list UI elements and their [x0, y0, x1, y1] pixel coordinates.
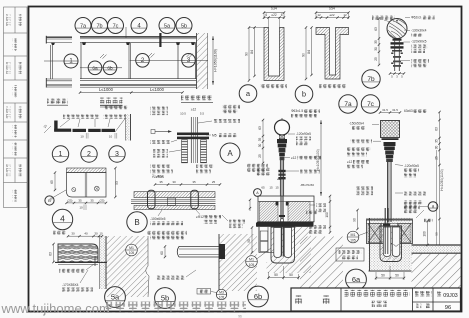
label wall junction [181, 96, 213, 101]
wall hatch strip at elevation right [197, 33, 208, 89]
svg-text:63: 63 [434, 127, 438, 131]
svg-text:H=1050(1100): H=1050(1100) [214, 49, 218, 72]
svg-text:30: 30 [94, 232, 98, 236]
svg-text:(25): (25) [68, 198, 73, 202]
detail 7c right dim line [439, 112, 441, 245]
detail bubble 7a [339, 95, 357, 113]
detail A left labels [150, 140, 170, 144]
detail B bottom plate hatched [134, 205, 215, 209]
detail bubble 6b [248, 286, 269, 307]
svg-text:6a: 6a [92, 65, 98, 71]
svg-text:31.5: 31.5 [392, 108, 398, 112]
svg-text:www.tujihome.com: www.tujihome.com [1, 301, 110, 316]
svg-text:≥22: ≥22 [330, 13, 335, 17]
svg-text:≥34: ≥34 [271, 7, 277, 11]
elevation bottom dimension line L<=1000 x2 [80, 92, 183, 94]
detail 3 wall joint bar [102, 129, 116, 132]
detail 6a finish note box [336, 248, 364, 261]
svg-text:65: 65 [261, 186, 265, 190]
detail bubble 6a [346, 269, 367, 290]
detail 7a collar fitting [279, 135, 284, 138]
detail 5a wall hatch [106, 236, 148, 297]
section a caption U-steel [260, 84, 287, 89]
title text line 1 [345, 290, 411, 297]
detail A bubble [220, 143, 240, 163]
svg-text:-100x60x5: -100x60x5 [150, 217, 166, 221]
svg-text:10: 10 [109, 134, 113, 138]
svg-text:15: 15 [269, 186, 273, 190]
detail B glass lines [131, 199, 216, 201]
svg-text:10.5: 10.5 [180, 112, 186, 116]
detail B right extension dim [249, 200, 251, 211]
svg-text:90: 90 [352, 218, 356, 222]
detail 5b header labels [147, 231, 187, 235]
svg-text:100: 100 [325, 212, 329, 218]
detail 7a rubber pads lower [278, 170, 285, 172]
section a height dims 90 84 [248, 28, 250, 81]
detail 1 corner bar [54, 121, 57, 132]
elevation callout bubble 4 [131, 18, 147, 34]
atlas number label [415, 291, 432, 296]
detail 5b sleeve label [156, 276, 185, 280]
svg-text:M3: M3 [219, 290, 224, 294]
svg-text:≥12: ≥12 [347, 160, 353, 164]
svg-text:5b: 5b [181, 23, 187, 29]
detail 6b M1 tag [246, 256, 258, 268]
svg-text:30: 30 [434, 146, 438, 150]
svg-text:4: 4 [60, 214, 65, 224]
detail 7a anchor bolt [280, 196, 282, 219]
detail 5b wall hatch [219, 234, 257, 291]
detail 6b slab top dark band [256, 223, 312, 227]
svg-text:(25): (25) [100, 198, 105, 202]
detail bubble 5b [155, 288, 176, 309]
svg-text:12: 12 [317, 13, 321, 17]
svg-text:35: 35 [90, 198, 94, 202]
detail bubble 5a [105, 287, 126, 308]
detail 7c wood handrail square [381, 121, 400, 138]
svg-text:65: 65 [50, 180, 54, 184]
svg-text:5b: 5b [161, 293, 169, 302]
detail 5b anchor plate in wall [219, 244, 225, 259]
title text line 2 (three) [372, 301, 388, 307]
svg-text:50: 50 [395, 274, 399, 278]
svg-text:≥22: ≥22 [271, 13, 277, 17]
svg-text:25: 25 [258, 154, 262, 158]
svg-text:7a: 7a [80, 23, 87, 29]
svg-text:63: 63 [258, 126, 262, 130]
section bubble b [295, 85, 313, 103]
svg-text:30: 30 [71, 232, 75, 236]
svg-text:6: 6 [265, 13, 267, 17]
svg-text:7c: 7c [113, 23, 119, 29]
svg-text:63: 63 [48, 252, 52, 256]
detail B top dims [155, 184, 220, 186]
svg-text:-120x90x5: -120x90x5 [411, 40, 427, 44]
detail 6a upstand bottom edge [369, 270, 412, 272]
svg-text:L≤1000: L≤1000 [150, 87, 165, 92]
svg-text:50: 50 [381, 274, 385, 278]
corner piece top rail [46, 36, 72, 38]
svg-text:50: 50 [289, 273, 293, 277]
svg-text:Φ63x1.5: Φ63x1.5 [291, 109, 303, 113]
detail 4 bottom dims [67, 202, 107, 204]
detail 7a right dim H [320, 120, 322, 196]
detail 6b slab hatch right and below [267, 227, 312, 273]
svg-text:30: 30 [258, 144, 262, 148]
svg-text:105: 105 [219, 295, 225, 299]
svg-text:31.5: 31.5 [382, 108, 388, 112]
rail joint mark [159, 33, 161, 47]
detail 3 wall strip [126, 114, 131, 141]
glass pane verticals [80, 43, 82, 79]
slab hatch bottom right [412, 254, 461, 288]
detail bubbles 6a 6b with leader [80, 67, 122, 69]
svg-text:B: B [134, 218, 139, 227]
detail 7b rubber pads and glass [394, 41, 396, 71]
page label [417, 303, 422, 308]
svg-text:93: 93 [115, 181, 119, 185]
detail bubble 7b [362, 70, 380, 88]
detail 7b bottom dim 5 3 5 [390, 73, 404, 75]
title block frame [291, 288, 461, 311]
detail 6b left glass channel [274, 228, 281, 258]
detail 7a anchor slot caps [276, 202, 279, 206]
detail B bolt posts [148, 190, 156, 209]
svg-text:3: 3 [115, 151, 119, 158]
signature column boxes [4, 7, 28, 208]
svg-text:09J03: 09J03 [443, 293, 457, 299]
svg-text:25: 25 [374, 57, 378, 61]
detail 2 butt joint bars [73, 129, 87, 132]
detail 7c clamps [384, 142, 396, 146]
section bubble a [239, 85, 257, 103]
detail 7b screw label [372, 16, 395, 21]
svg-text:5a: 5a [164, 23, 171, 29]
detail 7a clamp dark stack [277, 139, 287, 143]
detail 5b buried plate tag [197, 289, 211, 295]
svg-text:96: 96 [445, 305, 451, 311]
detail 5b dim 60 [164, 246, 166, 257]
svg-text:-120x90x5: -120x90x5 [404, 164, 419, 168]
detail B right small labels 1.5 stainless [229, 220, 245, 224]
svg-text:Φ62x3: Φ62x3 [411, 16, 421, 20]
svg-text:7b: 7b [367, 76, 375, 83]
leader lines from header to bars [60, 119, 70, 127]
U channel section b body (hat shape) [316, 28, 349, 80]
svg-text:105: 105 [350, 238, 356, 242]
detail 6a outer shoe pocket with grout hatch [380, 226, 402, 262]
detail 5a wall plaster strip [100, 236, 107, 289]
detail A hatched posts [182, 140, 188, 163]
main elevation top rail [80, 36, 197, 38]
svg-text:35: 35 [192, 180, 196, 184]
svg-text:10: 10 [79, 206, 83, 210]
slab hatch below 7a base [300, 237, 343, 291]
detail 6a right empty channel [392, 227, 400, 257]
detail A header labels [150, 107, 168, 111]
detail 5a screw label [59, 269, 85, 273]
svg-text:35: 35 [374, 40, 378, 44]
svg-text:10: 10 [99, 232, 103, 236]
detail 7c/6a base plate line [366, 218, 413, 220]
detail 4 left dim 65 [54, 173, 56, 190]
details 1-3 header labels [104, 106, 128, 110]
elevation callout bubbles 5a 5b [159, 18, 175, 34]
svg-text:50: 50 [274, 273, 278, 277]
detail 7a small left labels [256, 168, 270, 172]
elevation callout bubbles 7a 7b 7c [75, 18, 91, 34]
detail 7a base support labels [306, 211, 317, 215]
svg-text:15: 15 [275, 186, 279, 190]
svg-text:84: 84 [250, 50, 254, 54]
detail 7a base bottom dark band [257, 222, 314, 227]
detail bubble 2 with leader [130, 59, 185, 61]
detail A clamp blocks [177, 133, 209, 136]
corner piece base channel [46, 78, 72, 80]
detail 7c top dims 31.5 31.5 [380, 112, 400, 114]
svg-text:12: 12 [343, 13, 347, 17]
atlas number value [437, 291, 442, 296]
svg-text:105: 105 [249, 263, 255, 267]
svg-text:M1: M1 [249, 257, 254, 261]
svg-text:6a: 6a [352, 275, 361, 284]
svg-text:2: 2 [87, 151, 91, 158]
watermark cjk text [106, 302, 246, 314]
detail 7a handrail circle (stainless tube) [275, 120, 290, 135]
svg-text:A: A [227, 149, 233, 158]
detail 6b bottom dims 50 50 [269, 277, 299, 279]
svg-text:100: 100 [422, 231, 426, 237]
glass marks [100, 54, 104, 58]
detail 6a slab edge verticals [369, 218, 371, 271]
svg-text:96: 96 [238, 315, 242, 318]
detail 5a screw [94, 256, 96, 266]
detail bubble 1 with leader [44, 60, 78, 62]
detail 7b steel support bar [393, 39, 402, 41]
detail 6b right glass channel [284, 228, 291, 258]
svg-text:B: B [48, 198, 51, 203]
svg-text:≥12: ≥12 [291, 156, 297, 160]
svg-text:35: 35 [159, 180, 163, 184]
svg-text:40: 40 [84, 232, 88, 236]
detail 7a glass / post lines [279, 160, 281, 196]
svg-text:≥t2: ≥t2 [277, 177, 281, 181]
svg-text:90: 90 [245, 52, 249, 56]
svg-text:6b: 6b [254, 292, 262, 301]
svg-text:≥12: ≥12 [191, 108, 197, 112]
svg-text:90: 90 [302, 53, 306, 57]
svg-text:7a: 7a [344, 101, 352, 108]
detail bubble 7c [361, 95, 379, 113]
detail 4 screw symbols [72, 188, 76, 192]
detail 6a concrete upstand stipple body [369, 218, 412, 271]
detail 6a clamp between blocks [383, 224, 390, 226]
right extension line [436, 150, 438, 245]
svg-text:-150x50x4: -150x50x4 [349, 122, 364, 126]
detail 4 plan body [67, 173, 107, 197]
label zhuanjiaochu (corner) [47, 99, 68, 104]
svg-text:90: 90 [247, 239, 251, 243]
svg-text:105: 105 [129, 251, 135, 255]
detail 6a glass pane into channel [384, 226, 386, 254]
svg-text:5.5: 5.5 [200, 112, 205, 116]
detail 4 right dim 93 [114, 168, 116, 197]
detail 7a right dim 100 [329, 196, 331, 233]
detail 4 reference bubble B small [45, 196, 54, 205]
svg-text:63x63: 63x63 [404, 109, 413, 113]
leader from bubble 4 to rail [125, 27, 127, 38]
right slab labels [403, 201, 423, 205]
detail 7c steel plate under rail [382, 138, 399, 140]
svg-text:35: 35 [258, 138, 262, 142]
detail 6a left glass channel [383, 227, 391, 257]
corner piece post [50, 45, 52, 79]
svg-text:M5: M5 [212, 134, 217, 138]
rail support blocks [82, 42, 86, 45]
detail 6b edge upstand boxes [258, 227, 260, 253]
detail 7b side bolts [391, 53, 393, 54]
elevation base channel [80, 77, 197, 79]
svg-text:10: 10 [80, 134, 84, 138]
svg-text:-85x70x50: -85x70x50 [300, 183, 314, 187]
detail 6b left dim 90 [251, 228, 253, 253]
detail 7b clamp plates [391, 42, 404, 44]
detail 5a wood handrail section [58, 244, 98, 262]
svg-text:5a: 5a [111, 292, 120, 301]
detail 5b tube [179, 245, 219, 247]
svg-text:≥Φ14: ≥Φ14 [156, 175, 164, 179]
detail 6b outer shoe shell with grout hatch [271, 227, 295, 263]
detail 7c post glass lines [387, 162, 389, 222]
detail A left arrow [155, 131, 168, 133]
svg-text:84: 84 [307, 50, 311, 54]
svg-text:6: 6 [281, 13, 283, 17]
svg-text:35: 35 [434, 139, 438, 143]
detail 6a bottom dims 50 50 [376, 277, 404, 279]
label limiantu (elevation title) [100, 98, 123, 104]
svg-text:7b: 7b [96, 23, 102, 29]
detail 7a left dim stack [262, 120, 264, 163]
detail 7a section bubble A small [254, 189, 262, 197]
detail 7c section bubble a small [428, 202, 438, 212]
svg-text:≥54: ≥54 [329, 7, 335, 11]
detail B header labels [150, 165, 171, 169]
detail 7b wood handrail circle [387, 19, 407, 39]
detail bubble 4 [52, 209, 72, 229]
detail bubble B [127, 212, 147, 232]
detail B top hatched plate [134, 192, 215, 198]
detail 5a left dim 63 [53, 244, 55, 262]
svg-text:L≤1000: L≤1000 [99, 87, 114, 92]
detail 7c base right X block [398, 224, 412, 243]
detail bubbles 1 2 3 [52, 146, 68, 162]
detail 5a M1 tag [126, 244, 138, 256]
detail 6a M1 tag [347, 231, 359, 243]
detail 6a 90 dim [357, 210, 359, 229]
detail 7b left dim stack [378, 19, 380, 66]
detail 7c base left X block [368, 224, 382, 243]
detail 7a base anchor block [258, 196, 314, 222]
elevation height dimension H=1050(1100) [212, 36, 214, 85]
svg-text:H=1050(1100): H=1050(1100) [440, 169, 444, 191]
svg-text:60: 60 [160, 251, 164, 255]
svg-text:-170X55X4: -170X55X4 [62, 283, 79, 287]
detail 7a weld labels right [316, 204, 326, 208]
detail 6a glass from above [384, 208, 386, 226]
svg-text:b: b [302, 90, 306, 99]
svg-text:H=1050(1100): H=1050(1100) [316, 149, 320, 171]
svg-text:30: 30 [374, 47, 378, 51]
detail 6b glass pane center [281, 227, 283, 257]
title block tu ming label [295, 296, 304, 305]
detail bubble 3 with leader [180, 59, 208, 61]
section b height dims 90 84 [305, 28, 307, 80]
svg-text:35: 35 [78, 198, 82, 202]
detail 5a top label and dims [53, 231, 66, 235]
svg-text:6b: 6b [107, 65, 113, 71]
svg-text:M1: M1 [129, 246, 134, 250]
detail A glass lines [190, 117, 192, 163]
svg-text:30: 30 [172, 180, 176, 184]
detail 5a base line [55, 261, 107, 263]
svg-text:63: 63 [374, 27, 378, 31]
section b caption U-steel [319, 84, 346, 89]
right slab 100 dim [427, 221, 429, 245]
svg-text:-130x30x4: -130x30x4 [411, 29, 427, 33]
detail 4 top hatched bar [67, 168, 107, 173]
svg-text:≥Φ12: ≥Φ12 [196, 215, 204, 219]
U channel section a body [264, 28, 284, 81]
svg-text:-120x90x5: -120x90x5 [296, 132, 311, 136]
right slab band stipple [412, 246, 461, 253]
svg-text:7c: 7c [367, 101, 375, 108]
svg-text:25: 25 [212, 180, 216, 184]
svg-text:1: 1 [59, 151, 63, 158]
svg-text:M1: M1 [351, 233, 356, 237]
detail B center spacer [168, 198, 176, 205]
